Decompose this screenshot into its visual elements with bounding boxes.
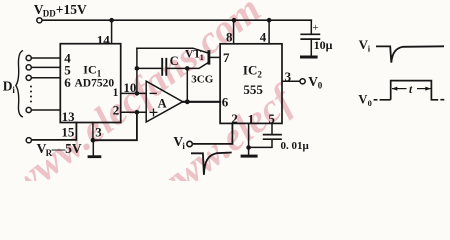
node opamp output [185,99,190,104]
svg-text:V: V [358,92,367,106]
brace Di [16,51,23,118]
svg-text:DD: DD [43,9,56,19]
wire pin8 [233,20,235,44]
wire IC1 pin1 to opamp - input [121,92,147,94]
svg-text:3: 3 [285,69,292,84]
svg-text:3: 3 [95,124,102,139]
capacitor 0.01u plates [264,135,281,140]
svg-text:1: 1 [200,52,204,62]
wire D input bit 5 [31,66,60,68]
D input terminal circles [26,55,31,60]
capacitor C plates [162,59,166,75]
junction dots [91,18,272,150]
node feedback-cap left [135,66,140,71]
Vi terminal circle [187,141,192,146]
VDD terminal circle [37,18,42,23]
capacitor 10u plates [301,34,319,39]
svg-text:6: 6 [64,75,71,90]
wire 555 pin2 to Vi [192,123,232,143]
wire 10u cap to ground [310,39,312,56]
svg-text:D: D [3,78,13,93]
node rail-pin4 [267,18,272,23]
waveform Vi small [191,153,232,175]
svg-text:AD7520: AD7520 [75,77,115,89]
svg-text:IC: IC [243,63,257,78]
op-amp minus sign [150,92,156,94]
ground 555 bar [241,155,258,158]
svg-text:+: + [312,22,318,34]
wire VT1 emitter top [137,48,208,53]
node 555 pin1 ground [246,145,251,150]
wire VT1 collector [187,63,207,69]
op-amp plus sign [150,109,157,116]
wire 555 pin3 output [282,80,300,82]
svg-text:4: 4 [260,30,267,45]
svg-text:i: i [12,85,15,95]
ground IC1 bar [88,155,102,158]
arrow t left [392,88,407,90]
wire VT1 base to 555 pin7 [210,56,220,58]
wire D input bit 4 [31,57,60,59]
svg-text:1: 1 [248,111,255,126]
svg-text:13: 13 [62,109,76,124]
wire D input bit 13 [31,109,60,111]
ground IC1 stem [92,140,94,155]
wire rail to 10u cap [310,20,312,34]
wire feedback left vertical [136,48,138,93]
wire IC1 pin2 to opamp + input [121,111,147,113]
svg-text:C: C [170,54,179,68]
svg-text:t: t [409,84,413,96]
svg-text:2: 2 [257,70,262,80]
svg-text:0. 01μ: 0. 01μ [281,140,310,152]
wire ground to opamp + input [93,112,137,140]
svg-text:3CG: 3CG [191,74,213,86]
svg-text:A: A [158,97,167,111]
ground 10u bar [300,56,318,59]
wire opamp output to 555 pin6 [183,101,220,103]
svg-text:0: 0 [318,80,323,90]
wire pin3 to ground [92,123,94,141]
svg-text:14: 14 [97,33,111,48]
svg-text:15: 15 [61,125,75,140]
wire pin14 [111,20,113,44]
svg-text:0: 0 [368,98,372,108]
watermark www.elecfans.com line A [1,0,269,206]
svg-text:5: 5 [268,111,275,126]
node opamp inverting input [135,91,140,96]
wire feedback right vertical [186,68,188,101]
svg-text:7: 7 [223,50,230,65]
VDD rail wire [42,19,311,21]
svg-text:IC: IC [83,62,96,76]
svg-text:555: 555 [243,82,263,97]
Vo terminal circle [300,79,305,84]
wire capacitor C left [137,67,161,69]
wire VR to pin15 [32,123,77,140]
node rail-pin8 [232,18,237,23]
IC1 AD7520 box [60,44,120,123]
svg-text:+15V: +15V [56,2,87,17]
wire 555 pin1 to ground [248,123,250,147]
wire D input bit 6 [31,77,60,79]
IC2 555 box [220,44,282,124]
wire capacitor C right [167,67,187,69]
node rail-pin14 [109,18,114,23]
node IC1 pin3 ground [91,138,96,143]
waveform Vi right [376,46,444,62]
svg-text:2: 2 [231,111,238,126]
waveform V0 pulse [374,81,445,100]
wire 555 pin5 to cap [271,123,273,133]
svg-text:10: 10 [123,80,136,95]
svg-text:2: 2 [113,102,120,117]
svg-text:6: 6 [222,95,229,110]
ellipsis dots D inputs [30,86,32,103]
svg-text:i: i [368,44,371,54]
transistor VT1 base bar [208,50,211,64]
svg-text:8: 8 [226,30,233,45]
svg-text:10μ: 10μ [314,38,333,52]
arrow t right [417,88,431,90]
node cap right [185,66,190,71]
watermark www.elecfans line B [141,75,303,214]
wire 0.01u cap to ground [249,140,272,148]
svg-text:—5V: —5V [51,141,82,156]
VR terminal circle [26,138,31,143]
op-amp A triangle [146,81,183,122]
node opamp noninverting input [135,110,140,115]
wire pin4 [268,20,270,44]
ground 555 stem [248,148,250,155]
svg-text:V: V [308,74,318,89]
